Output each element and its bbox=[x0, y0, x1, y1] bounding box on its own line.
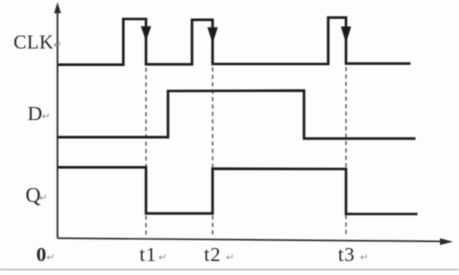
svg-text:t3: t3 bbox=[338, 244, 355, 266]
svg-text:↵: ↵ bbox=[39, 193, 47, 204]
clock edge arrow 3 bbox=[341, 27, 351, 44]
dashed line t2 bbox=[212, 67, 214, 236]
CLK waveform bbox=[58, 18, 411, 65]
D waveform bbox=[58, 91, 416, 139]
Q waveform bbox=[58, 167, 418, 214]
svg-text:↵: ↵ bbox=[360, 253, 368, 264]
dashed line t3 bbox=[345, 67, 347, 237]
y-axis bbox=[57, 9, 59, 238]
svg-text:t1: t1 bbox=[140, 244, 158, 266]
svg-text:t2: t2 bbox=[204, 244, 221, 266]
svg-text:D: D bbox=[28, 103, 43, 125]
svg-text:↵: ↵ bbox=[226, 253, 234, 264]
clock edge arrow 2 bbox=[207, 27, 217, 43]
x-axis bbox=[58, 238, 446, 241]
svg-text:↵: ↵ bbox=[159, 253, 167, 264]
dashed line t1 bbox=[145, 68, 147, 237]
faint page rule at bottom bbox=[0, 269, 459, 271]
x-axis arrowhead bbox=[440, 238, 453, 245]
svg-text:↵: ↵ bbox=[47, 253, 55, 264]
svg-text:CLK: CLK bbox=[14, 32, 54, 53]
svg-text:↵: ↵ bbox=[42, 112, 50, 123]
y-axis arrowhead bbox=[54, 2, 61, 13]
clock edge arrow 1 bbox=[141, 26, 151, 41]
svg-text:↵: ↵ bbox=[54, 40, 62, 51]
svg-text:0: 0 bbox=[36, 244, 46, 266]
